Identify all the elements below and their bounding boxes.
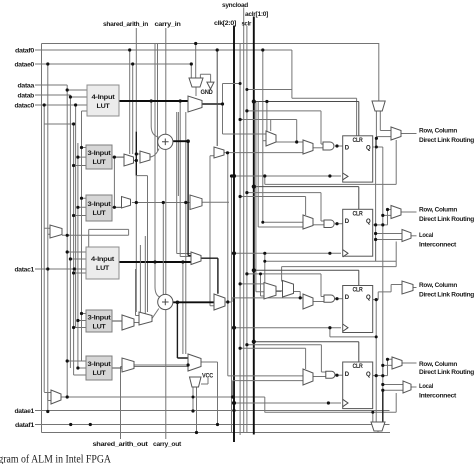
wire carry select continue [135, 176, 137, 312]
mux M3 [122, 197, 131, 209]
svg-text:shared_arith_in: shared_arith_in [103, 21, 148, 28]
wire T4 output [377, 431, 379, 433]
svg-text:syncload: syncload [222, 2, 248, 9]
wire bus line b [239, 44, 241, 436]
wire sclr tap 2 [247, 193, 324, 221]
wire mux T1 output to M5 [195, 87, 197, 96]
wire 3LUT3 output [112, 320, 122, 322]
mux ML1 [50, 225, 62, 238]
wire 3LUT4 input stubs [67, 361, 86, 375]
svg-text:CLR: CLR [353, 138, 364, 144]
wire dataf0 drop to mux M1 [129, 50, 131, 154]
mux MOUT3 [402, 230, 411, 242]
wire T2 leg1 [375, 111, 377, 147]
3-input LUT 4 [86, 356, 112, 380]
junction dots left [46, 62, 49, 65]
small mux SM1 [264, 283, 276, 300]
flip-flop FF2 [343, 209, 373, 256]
mux MOUT4 [402, 281, 413, 294]
wire mux MB output [202, 201, 229, 203]
wire middle column x135 [136, 269, 140, 316]
wire 3LUT2 input stubs [74, 198, 86, 215]
wire MOUT6 output [411, 386, 417, 388]
wire T2 leg2 [380, 111, 391, 131]
svg-text:3-Input: 3-Input [88, 361, 112, 368]
wire clk bus [233, 26, 235, 443]
wire carry select to M11 [136, 176, 147, 312]
mux M12 [122, 358, 134, 372]
mux T4 (down trapezoid) [371, 422, 385, 431]
wire syncload tap 3 [240, 283, 264, 285]
wire carry select vertical [135, 132, 137, 176]
wire input column e [77, 143, 79, 368]
wire AND4 output to FF4 D [335, 374, 345, 376]
4-input LUT 1 [87, 85, 119, 116]
mux M1 [124, 154, 134, 166]
junction dots FF region [335, 144, 338, 147]
adder 1 [158, 134, 173, 149]
wire Q2 feedback to SM2 [282, 267, 397, 282]
and gate AND3 [324, 295, 335, 302]
wire MOUT6 input2 [383, 389, 403, 391]
wire CLR tap drop to M6 [266, 102, 268, 132]
wire dataa [35, 84, 67, 86]
wire 4LUT2 output [119, 261, 191, 263]
svg-text:Local: Local [419, 232, 433, 239]
mux MOUT1 [391, 127, 401, 140]
wire mux M6 input2 [263, 140, 266, 142]
ground arrow [207, 82, 214, 89]
wire mux M16 output to AND4 [313, 376, 326, 378]
wire MOUT5 input1 [388, 359, 393, 375]
and gate AND4 [326, 371, 335, 378]
svg-text:Interconnect: Interconnect [419, 393, 457, 400]
wire FF1 clock line [232, 175, 342, 177]
wire shared riser [227, 153, 229, 376]
mux M7 [303, 140, 313, 154]
svg-text:Row, Column: Row, Column [419, 361, 457, 368]
wire FF3 loop [330, 328, 376, 337]
svg-text:sclr: sclr [242, 21, 252, 28]
mux MOUT6 [403, 381, 411, 393]
wire long vertical v4 [182, 262, 184, 354]
wire 3LUT1 input stubs [74, 148, 86, 166]
wire input column f [81, 111, 83, 361]
adder 2 [158, 294, 173, 309]
mux M15 [188, 354, 201, 371]
wire aclr tap 2 CLR [254, 187, 359, 210]
wire mux M3 output [132, 202, 190, 204]
wire aclr bus [253, 17, 255, 435]
svg-text:Direct Link Routing: Direct Link Routing [419, 216, 474, 223]
flip-flop FF4 [343, 362, 373, 409]
wire column f to ML2 [66, 361, 68, 397]
wire FF4 to T4 leg2 [382, 390, 384, 421]
wire M3 out to adder2 [162, 203, 164, 295]
mux T1 (down trapezoid) [189, 78, 203, 87]
wire middle column x145 [144, 236, 146, 319]
junction dots top [194, 42, 197, 45]
mux M16 [303, 369, 313, 385]
wire bottom border [42, 432, 391, 434]
wire dataf0 bypass to FF1 [292, 50, 357, 136]
wire MOUT2 input2 [383, 214, 391, 216]
wire syncload tap 1 [240, 120, 303, 143]
svg-text:CLR: CLR [353, 287, 364, 293]
svg-text:3-Input: 3-Input [88, 150, 112, 157]
wire feedback vertical A [375, 138, 377, 261]
wire mux ML2 inputs [44, 393, 51, 401]
mux M5 [188, 96, 202, 112]
mux MOUT5 [392, 357, 402, 369]
wire MOUT4 output [411, 287, 417, 289]
wire MOUT2 input1 [388, 210, 392, 225]
wire SM2 output [294, 292, 301, 298]
wire shared_arith_out riser [121, 367, 189, 440]
wire mux M2 output to adder1 [151, 149, 160, 158]
svg-text:Direct Link Routing: Direct Link Routing [419, 292, 474, 299]
wire MOUT2 output [401, 211, 417, 213]
junction dots bus [232, 174, 236, 178]
wire mux M8 input2 [258, 102, 303, 228]
wire bus line clk2 [231, 176, 233, 433]
wire 4LUT1 branch to adder1 [151, 101, 158, 137]
wire input column c [73, 124, 75, 375]
3-input LUT 3 [86, 310, 112, 332]
svg-text:4-Input: 4-Input [92, 94, 116, 101]
svg-text:datae0: datae0 [15, 62, 35, 69]
wire sclr tap 1 [247, 111, 323, 144]
wire crosslink c [44, 123, 73, 125]
wire MOUT5 input2 [383, 365, 392, 375]
wire MOUT6 input1 [383, 384, 403, 386]
wire 4LUT1 output [119, 100, 188, 102]
svg-text:dataf1: dataf1 [15, 422, 35, 429]
wire mux M1 output [134, 160, 137, 162]
svg-text:LUT: LUT [93, 159, 106, 166]
wire T1 to GND arrow [200, 74, 210, 82]
svg-text:shared_arith_out: shared_arith_out [93, 441, 149, 448]
wire M6 select vertical [223, 84, 267, 135]
svg-text:datac0: datac0 [15, 103, 35, 110]
wire FF2 Q [372, 224, 388, 226]
wire mux M7 output to AND1 [313, 147, 323, 149]
mux M11 [139, 312, 152, 325]
wire MOUT5 output [402, 362, 417, 364]
mux MB [190, 195, 202, 210]
wire top border to T1 [195, 44, 197, 78]
wire M4 riser tap to M16 [228, 375, 303, 377]
flip-flop FF3 [343, 286, 373, 333]
wire MOUT3 output [411, 235, 417, 237]
and gate AND2 [324, 220, 334, 228]
wire 4LUT2 input stubs [67, 252, 86, 273]
wire dataf0 branch down [262, 50, 264, 222]
wire FF1 Q [373, 146, 383, 148]
wire mux M11 output to adder2 [152, 309, 159, 319]
wire carry_out [165, 309, 167, 439]
wire syncload tap 2 [240, 197, 306, 216]
wire MOUT4 inputs [376, 285, 402, 300]
wire mux M13 output [225, 298, 303, 302]
mux ML2 [51, 390, 61, 404]
wire left column A [43, 105, 45, 392]
svg-text:LUT: LUT [97, 103, 110, 110]
wire 3LUT3 input stubs [74, 314, 86, 328]
wire vertical pair from top [155, 44, 161, 298]
wire carry_in to adder1 [165, 28, 167, 135]
wire sclr line [246, 26, 248, 433]
wire syncload tap 4 [240, 348, 306, 369]
mux T3 (down trapezoid, VCC) [190, 377, 202, 387]
mux M13 [214, 294, 225, 310]
wire FF4 loop [265, 393, 396, 422]
wire sclr tap 3 [247, 274, 324, 297]
junction dots bottom [191, 409, 194, 412]
svg-text:Q: Q [366, 295, 371, 301]
wire sclr upper tap [247, 89, 292, 91]
wire datae0 [35, 63, 191, 65]
svg-text:Interconnect: Interconnect [419, 242, 457, 249]
wire adder1 output [173, 140, 188, 142]
mux M2 [140, 151, 150, 163]
wire MOUT3 input1 [376, 233, 402, 235]
wire dataf0 [35, 49, 292, 51]
4-input LUT 2 [86, 247, 119, 279]
wire MOUT1 input2 [376, 136, 391, 138]
mux M6 [266, 131, 276, 146]
svg-text:Local: Local [419, 383, 433, 390]
svg-text:aclr[1:0]: aclr[1:0] [245, 11, 268, 18]
svg-text:Q: Q [366, 372, 371, 378]
wire 3LUT1 out drop to 3LUT2 out [113, 157, 115, 207]
wire datab [35, 94, 70, 96]
flip-flop FF1 [343, 136, 373, 182]
svg-text:Direct Link Routing: Direct Link Routing [419, 137, 474, 144]
wire aclr tap 4 CLR [254, 342, 359, 362]
wire datae0 drop to mux M1 [132, 64, 134, 154]
wire 3LUT1 output [112, 156, 124, 158]
wire mux M15 output [201, 362, 218, 425]
wire adder2 out drop to M15 [177, 302, 188, 358]
svg-text:GND: GND [201, 89, 213, 96]
wire mux M9 output to AND3 [313, 301, 324, 303]
wire carry chain adder1 to adder2 [165, 149, 167, 294]
svg-text:4-Input: 4-Input [91, 256, 115, 263]
wire adder2 output [173, 301, 214, 303]
wire left border [41, 44, 43, 433]
wire AND1 output to FF1 D [335, 145, 345, 147]
wire datae0 to mux T1 [190, 64, 192, 78]
3-input LUT 2 [86, 195, 112, 221]
svg-text:Row, Column: Row, Column [419, 207, 457, 214]
wire adder1 out drop to M14 [188, 141, 191, 255]
wire datac1 [35, 268, 86, 270]
wire AND2 output to FF2 D [335, 223, 345, 225]
wire small mux SM1 input3 [261, 274, 265, 296]
mux T2 (down trapezoid) [372, 101, 385, 111]
wire mux M5 output [202, 103, 223, 105]
svg-text:datae1: datae1 [15, 408, 35, 415]
wire mux M4 input2 [210, 156, 214, 306]
svg-text:datac1: datac1 [15, 267, 35, 274]
wire MOUT1 output [401, 133, 417, 135]
wire input column dataa [66, 85, 68, 361]
svg-text:clk[2:0]: clk[2:0] [214, 20, 236, 27]
wire aclr tap 1 CLR [254, 102, 359, 136]
mux M4 [214, 147, 224, 158]
svg-text:3-Input: 3-Input [88, 201, 112, 208]
wire shared_arith_in [135, 28, 137, 132]
svg-text:Row, Column: Row, Column [419, 282, 457, 289]
svg-text:Direct Link Routing: Direct Link Routing [419, 369, 474, 376]
svg-text:datab: datab [18, 93, 35, 100]
wire FF1 loop [265, 140, 396, 184]
wire sclr tap 4 [247, 345, 326, 372]
svg-text:LUT: LUT [93, 324, 106, 331]
svg-text:Row, Column: Row, Column [419, 128, 457, 135]
mux M9 [303, 294, 313, 309]
wire mux M12 output [134, 364, 188, 366]
wire FF3 to FF4 cascade [375, 300, 377, 422]
wire syncload line [243, 8, 245, 433]
wire datac0 [35, 104, 76, 106]
svg-text:3-Input: 3-Input [88, 315, 112, 322]
wire SM1 output [276, 290, 283, 292]
wire left column B [47, 64, 49, 412]
svg-text:VCC: VCC [202, 373, 213, 380]
mux M14 [191, 252, 201, 265]
wire T3 leg1 [192, 387, 194, 411]
svg-text:dataf0: dataf0 [15, 48, 35, 55]
wire FF2 loop [265, 242, 396, 267]
svg-text:CLR: CLR [353, 364, 364, 370]
wire MB feeder vertical [185, 112, 187, 354]
wire feedback vertical B [382, 147, 384, 390]
3-input LUT 1 [86, 145, 112, 169]
svg-text:agram of ALM in Intel FPGA: agram of ALM in Intel FPGA [0, 454, 112, 464]
wire mux M8 input1 [263, 221, 304, 223]
wire bus feed SM1 [256, 102, 264, 292]
wire AND3 output to FF3 D [335, 298, 345, 300]
mux M10 [122, 315, 134, 330]
wire long vertical v1 [177, 112, 192, 254]
wire M2 input tap [136, 153, 140, 155]
wire long vertical v2 [177, 112, 179, 196]
wire mux M6 top [270, 120, 272, 132]
wire mux M6 output [276, 141, 297, 143]
svg-text:Q: Q [366, 146, 371, 152]
svg-text:LUT: LUT [96, 265, 109, 272]
wire FF3 clock line [232, 327, 342, 329]
wire FF3 Q [373, 299, 377, 301]
wire ML2 out corner [264, 397, 266, 413]
wire mux M16 input2 [233, 381, 303, 397]
wire mux M14 output [201, 258, 218, 294]
wire input column datab [69, 95, 71, 368]
wire middle column x140 [139, 245, 141, 312]
wire FF4 Q [372, 375, 388, 377]
wire mux ML1 inputs [44, 228, 50, 234]
mux M8 [303, 215, 313, 229]
wire small mux SM2 input2 [265, 261, 282, 291]
wire FF4 clock line [234, 402, 341, 404]
svg-text:dataa: dataa [18, 83, 35, 90]
svg-text:CLR: CLR [353, 211, 364, 217]
wire long vertical v3 [180, 101, 191, 257]
wire aclr tap 3 CLR [254, 270, 359, 285]
wire dataf0 drop to M4 [216, 50, 218, 146]
wire VCC drop [201, 378, 208, 384]
wire T3 leg2 [196, 387, 198, 433]
svg-text:carry_out: carry_out [153, 441, 182, 448]
wire mux M4 output [222, 152, 303, 154]
wire datae1 [35, 410, 390, 412]
wire MOUT3 input2 [376, 240, 402, 262]
wire mux M10 output [134, 322, 139, 324]
wire input column datac0 [75, 105, 77, 327]
wire 3LUT4 output [112, 367, 122, 369]
wire mux ML2 output [61, 396, 265, 398]
small mux SM2 [283, 281, 294, 298]
wire dataf1 [35, 424, 390, 426]
svg-text:LUT: LUT [93, 370, 106, 377]
and gate AND1 [323, 142, 334, 150]
wire 4LUT1 input stubs [67, 90, 87, 111]
mux MOUT2 [391, 206, 401, 219]
wire FF2 clock line [234, 252, 341, 254]
svg-text:Q: Q [366, 219, 371, 225]
svg-text:carry_in: carry_in [155, 21, 181, 28]
wire 3LUT2 output [112, 206, 122, 208]
wire top feedback to mux T2 [42, 44, 379, 102]
svg-text:LUT: LUT [93, 210, 106, 217]
wire mux M8 output to AND2 [313, 224, 324, 226]
wire mux ML1 output [62, 229, 129, 247]
